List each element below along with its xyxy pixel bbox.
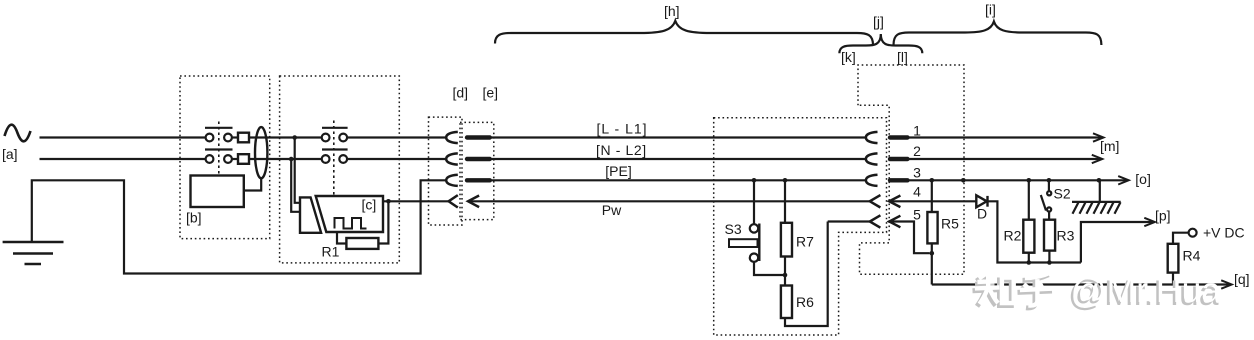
socket contact row 4 bracket — [449, 195, 458, 207]
node R2 top — [1027, 178, 1032, 183]
resistor R4 — [1168, 244, 1179, 273]
wire line4 to diode — [889, 200, 976, 202]
trip coil box — [191, 176, 244, 208]
brace [h] — [495, 21, 873, 45]
RCD box [b] — [180, 76, 270, 239]
socket contact k1 — [866, 132, 878, 143]
arrow [q] — [1221, 280, 1232, 288]
wire PE to R7 — [784, 180, 786, 223]
switch actuator bar [c] line N — [322, 148, 348, 150]
node PE to S3 — [752, 178, 757, 183]
node at unit boundary — [961, 178, 966, 183]
wire Pw to connector [d] — [383, 200, 449, 202]
node R3 bottom — [1047, 260, 1052, 265]
svg-text:R3: R3 — [1057, 228, 1075, 244]
wire L from source to switch [b] — [40, 136, 206, 138]
switch contact circles [b] line N — [206, 155, 232, 163]
svg-text:R1: R1 — [322, 243, 340, 259]
switch S3 actuator — [729, 239, 758, 247]
wire bus to [p] — [1081, 222, 1153, 263]
pin bar row 2 — [467, 157, 490, 161]
svg-text:[o]: [o] — [1135, 171, 1151, 187]
wire N from source to switch [b] — [40, 158, 206, 160]
relay coil parallelogram — [300, 197, 321, 232]
switch actuator bar [b] line L — [205, 127, 233, 129]
node earth tap — [1097, 178, 1102, 183]
svg-text:[PE]: [PE] — [605, 163, 631, 179]
svg-text:R7: R7 — [796, 234, 814, 250]
svg-text:2: 2 — [913, 143, 921, 159]
mechanical link [b] — [218, 122, 220, 176]
wire L tap to relay coil — [295, 138, 300, 203]
pin bar l3 — [890, 178, 908, 182]
pulse waveform symbol — [335, 218, 367, 229]
arrow head Pw at [e] — [468, 196, 479, 208]
switch S2 — [1041, 180, 1051, 219]
wire [b] L contact to sense box — [232, 136, 238, 138]
sense element square line N — [238, 154, 249, 164]
switch contact circles [c] line L — [322, 134, 347, 142]
arrow head pin 5 — [889, 216, 900, 228]
socket contact row 3 — [446, 175, 458, 186]
svg-text:R2: R2 — [1004, 228, 1022, 244]
svg-text:[b]: [b] — [186, 210, 202, 226]
sense element square line L — [238, 133, 249, 143]
resistor R3 — [1044, 220, 1055, 263]
resistor R2 — [1023, 180, 1034, 262]
switch contact circles [b] line L — [206, 134, 232, 142]
arrow line1 — [1093, 133, 1104, 141]
current transformer ellipse — [255, 127, 267, 178]
brace [j] — [839, 34, 922, 53]
wire [L - L1] — [490, 136, 866, 138]
wire L through CT to switch [c] — [249, 136, 322, 138]
svg-text:D: D — [977, 205, 987, 221]
svg-text:[l]: [l] — [897, 49, 908, 65]
svg-text:[c]: [c] — [362, 197, 377, 213]
arrow [p] — [1144, 218, 1155, 226]
ground — [3, 242, 64, 264]
connector box [e] — [460, 122, 494, 219]
wire N tap to relay coil — [291, 159, 300, 212]
arrow head pin 4 — [889, 196, 900, 208]
wire PE to S3 — [753, 180, 755, 224]
switch S3 contact bottom — [750, 254, 758, 262]
svg-text:[k]: [k] — [841, 49, 856, 65]
svg-text:S2: S2 — [1054, 186, 1071, 202]
wire N from [c] switch to connector — [347, 158, 446, 160]
wire N through CT to switch [c] — [249, 158, 322, 160]
svg-text:5: 5 — [913, 207, 921, 223]
wire Pw — [468, 200, 870, 202]
wire PE from ground to connector [d] — [32, 180, 446, 273]
resistor R1 — [346, 238, 378, 249]
brace [i] — [894, 22, 1102, 46]
wire trapezoid to R1 — [337, 232, 346, 244]
svg-text:R6: R6 — [796, 294, 814, 310]
diode D — [976, 195, 987, 207]
svg-text:R5: R5 — [941, 215, 959, 231]
wire R4 to bus — [1172, 273, 1174, 285]
wire coil box to CT — [244, 178, 261, 190]
+V DC terminal — [1189, 229, 1197, 237]
node on line N — [289, 157, 294, 162]
wire line5 to R5 bottom node — [889, 222, 929, 254]
resistor R7 — [781, 223, 792, 257]
resistor R5 — [927, 180, 937, 284]
wire R6 to line 5 — [785, 222, 828, 327]
wire R1 to Pw node — [378, 201, 388, 243]
wire terminal to R4 — [1173, 233, 1189, 244]
arrow line2 — [1092, 155, 1103, 163]
svg-text:[d]: [d] — [453, 85, 469, 101]
wire line3 PE right — [907, 179, 1127, 181]
AC source symbol — [5, 125, 31, 142]
node S2 top — [1047, 178, 1052, 183]
switch S3 contact top — [750, 224, 758, 232]
svg-text:[q]: [q] — [1234, 271, 1250, 287]
wire diode to bottom bus — [988, 201, 1081, 262]
svg-text:[j]: [j] — [873, 14, 884, 30]
svg-text:[N - L2]: [N - L2] — [596, 142, 647, 158]
node R5 bottom — [930, 251, 935, 256]
svg-text:Pw: Pw — [602, 202, 622, 218]
svg-text:@Mr.Hua: @Mr.Hua — [1071, 270, 1222, 310]
socket contact k4 bracket — [870, 195, 881, 207]
node R5 top — [930, 178, 935, 183]
connector box [d] — [429, 117, 463, 225]
socket contact row 2 — [446, 153, 458, 164]
svg-text:S3: S3 — [725, 221, 742, 237]
wire L from [c] switch to connector — [347, 136, 446, 138]
node Pw — [386, 199, 391, 204]
svg-text:[m]: [m] — [1100, 138, 1119, 154]
wire R7 to node — [784, 257, 786, 286]
node S3/R7/R6 — [783, 273, 788, 278]
connector unit dotted outline [j] — [858, 65, 964, 274]
svg-text:3: 3 — [913, 164, 921, 180]
wire line2 to [m] — [907, 158, 1101, 160]
wire [PE] — [490, 179, 866, 181]
node R2 bottom — [1027, 260, 1032, 265]
watermark zhihu @Mr.Hua — [973, 270, 1222, 313]
wire [b] N contact to sense box — [232, 158, 238, 160]
earth stub — [1099, 180, 1101, 202]
svg-text:[h]: [h] — [664, 3, 680, 19]
pin bar l2 — [890, 157, 908, 161]
svg-text:[e]: [e] — [483, 85, 499, 101]
wire line 5 to connector — [828, 220, 870, 222]
svg-text:[i]: [i] — [985, 1, 996, 17]
socket contact k5 bracket — [870, 215, 881, 227]
svg-text:[L - L1]: [L - L1] — [597, 121, 648, 137]
switch S3 blade — [758, 224, 760, 262]
relay body trapezoid — [316, 196, 383, 232]
svg-text:[a]: [a] — [2, 146, 18, 162]
svg-text:1: 1 — [913, 123, 921, 139]
pin bar row 1 — [467, 135, 490, 139]
node on line L — [292, 135, 297, 140]
pin bar row 3 — [467, 178, 490, 182]
chassis earth symbol — [1072, 202, 1121, 214]
socket contact row 1 — [446, 132, 458, 143]
arrow line3 — [1118, 176, 1129, 184]
switch contact circles [c] line N — [322, 155, 347, 163]
resistor R6 — [781, 286, 792, 319]
relay box [c] — [280, 76, 400, 263]
svg-text:+V DC: +V DC — [1203, 224, 1245, 240]
switch actuator bar [c] line L — [322, 127, 348, 129]
wire line1 to [m] — [907, 136, 1102, 138]
socket contact k2 — [866, 153, 878, 164]
switch actuator bar [b] line N — [205, 148, 233, 150]
svg-text:[p]: [p] — [1155, 207, 1171, 223]
wire [N - L2] — [490, 158, 866, 160]
pin bar l1 — [890, 135, 908, 139]
wire S3 to node — [754, 262, 785, 275]
svg-text:R4: R4 — [1183, 247, 1201, 263]
svg-text:4: 4 — [913, 184, 921, 200]
wire bus [q] — [932, 283, 1230, 285]
monitoring network dashed box — [714, 118, 887, 335]
socket contact k3 — [866, 175, 878, 186]
node PE to R7 — [783, 178, 788, 183]
mechanical link [c] — [333, 121, 335, 197]
